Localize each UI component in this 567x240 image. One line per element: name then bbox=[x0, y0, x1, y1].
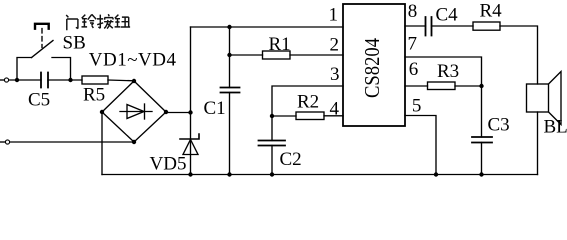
svg-text:C3: C3 bbox=[488, 115, 510, 136]
svg-text:R1: R1 bbox=[269, 34, 291, 55]
svg-text:R2: R2 bbox=[297, 92, 319, 113]
svg-text:BL: BL bbox=[544, 117, 567, 138]
svg-text:5: 5 bbox=[412, 96, 422, 117]
svg-text:R4: R4 bbox=[480, 1, 503, 22]
svg-text:VD5: VD5 bbox=[150, 154, 187, 175]
svg-text:C2: C2 bbox=[280, 149, 302, 170]
svg-text:7: 7 bbox=[408, 33, 418, 54]
svg-text:4: 4 bbox=[330, 99, 340, 120]
svg-text:3: 3 bbox=[330, 64, 340, 85]
svg-text:2: 2 bbox=[330, 35, 340, 56]
svg-text:SB: SB bbox=[63, 33, 86, 54]
svg-text:C4: C4 bbox=[436, 5, 459, 26]
svg-text:C1: C1 bbox=[204, 98, 226, 119]
svg-text:CS8204: CS8204 bbox=[360, 38, 384, 98]
svg-text:6: 6 bbox=[409, 59, 419, 80]
svg-text:VD1~VD4: VD1~VD4 bbox=[89, 50, 177, 71]
svg-text:R5: R5 bbox=[83, 85, 105, 106]
svg-text:1: 1 bbox=[329, 5, 339, 26]
svg-text:C5: C5 bbox=[28, 90, 50, 111]
svg-text:8: 8 bbox=[408, 1, 418, 22]
svg-text:R3: R3 bbox=[437, 61, 459, 82]
